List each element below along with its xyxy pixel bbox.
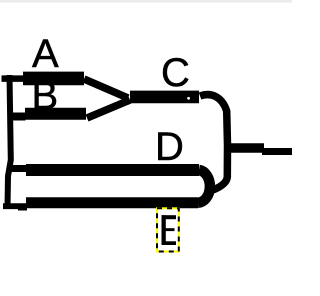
svg-text:C: C bbox=[161, 51, 190, 95]
svg-text:B: B bbox=[32, 74, 59, 118]
svg-text:A: A bbox=[32, 32, 59, 76]
svg-text:D: D bbox=[155, 125, 184, 169]
